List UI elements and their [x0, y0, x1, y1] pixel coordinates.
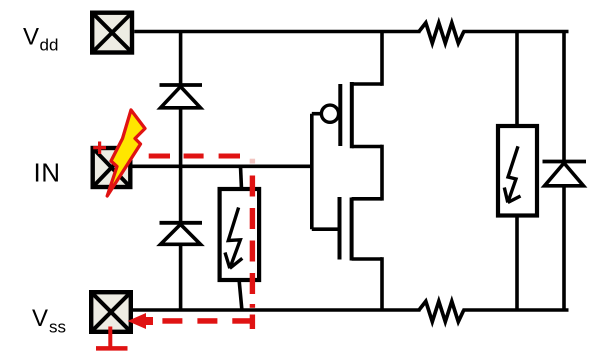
svg-text:V: V: [23, 24, 39, 51]
clamp M4: [498, 126, 537, 216]
transistor M2 PMOS gate bar: [338, 84, 342, 146]
wire gate to PMOS bubble: [312, 112, 322, 116]
wire NMOS source stub: [352, 257, 382, 261]
pad IN: [93, 148, 131, 187]
wire Vdd rail right: [463, 30, 569, 34]
svg-text:ss: ss: [49, 318, 66, 337]
ground: [96, 327, 128, 349]
plus sign ESD zap: [93, 142, 106, 155]
diode D2: [160, 223, 203, 245]
wire NMOS drain stub: [352, 197, 382, 201]
wire Vdd to D1: [179, 32, 183, 85]
ESD path dashed bottom: [162, 318, 252, 324]
transistor M3 NMOS channel bar: [350, 198, 354, 261]
wire D1 to IN: [179, 107, 183, 168]
wire Vdd to clamp M4: [515, 32, 519, 127]
label Vdd: [23, 24, 58, 55]
wire IN to D2: [179, 166, 183, 222]
svg-text:V: V: [32, 305, 48, 332]
wire Vss rail right: [463, 308, 569, 312]
wire PMOS drain stub: [352, 145, 382, 149]
wire D2 to Vss: [179, 244, 183, 311]
wire clamp M1 to Vss: [239, 279, 242, 311]
pad Vdd: [92, 13, 132, 53]
label Vss: [32, 305, 66, 337]
svg-text:dd: dd: [40, 36, 59, 55]
ESD path dashed vertical: [250, 159, 255, 329]
wire Vdd rail left: [134, 30, 420, 34]
wire clamp M4 to Vss: [515, 214, 519, 311]
diode D1: [160, 85, 203, 108]
wire PMOS source stub: [352, 82, 382, 86]
wire IN: [133, 165, 314, 169]
diode D3: [543, 162, 587, 186]
wire NMOS source to Vss: [380, 257, 384, 311]
pad Vss: [91, 292, 131, 332]
wire PMOS source to Vdd: [380, 32, 384, 86]
svg-text:IN: IN: [34, 158, 61, 188]
wire inverter gate node: [310, 114, 314, 230]
transistor M3 NMOS gate bar: [338, 197, 342, 260]
wire inverter output node: [380, 145, 384, 201]
wire Vdd to D3: [562, 32, 566, 162]
clamp M1: [220, 189, 260, 280]
ESD path dashed top: [149, 154, 240, 159]
op bubble PMOS gate: [321, 105, 338, 122]
lightning bolt ESD strike: [107, 110, 145, 196]
wire IN to clamp M1: [241, 166, 242, 189]
transistor M2 PMOS channel bar: [350, 82, 354, 148]
resistor R1: [419, 23, 464, 43]
wire D3 to Vss: [562, 185, 566, 311]
wire gate to NMOS: [312, 227, 338, 231]
ESD path arrowhead into Vss pad: [128, 313, 154, 329]
resistor R2: [419, 301, 464, 321]
wire Vss rail left: [133, 308, 421, 312]
